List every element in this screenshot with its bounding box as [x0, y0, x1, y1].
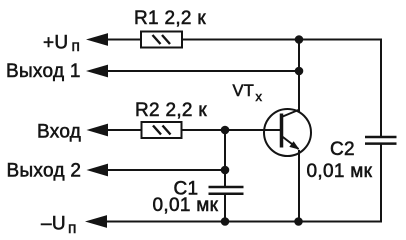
svg-text:–U: –U — [41, 214, 66, 235]
svg-text:п: п — [72, 38, 81, 55]
terminal arrow Vyhod 2 — [87, 164, 109, 177]
wire: R1 to top-right corner — [182, 39, 382, 41]
svg-text:x: x — [256, 89, 263, 104]
wire: Vyhod 1 line — [106, 70, 299, 72]
wire: C1 to bottom rail — [224, 194, 226, 222]
junction dot Vyhod 1 — [295, 67, 304, 76]
junction dot Vyhod 2 — [221, 166, 230, 175]
wire: right rail upper — [380, 39, 382, 138]
capacitor C2 — [365, 137, 397, 144]
junction dot top rail — [295, 35, 304, 44]
wire: Vyhod 2 line — [107, 169, 225, 171]
junction dot C1 bottom — [221, 217, 230, 226]
wire: R2 to transistor base — [182, 129, 281, 131]
terminal arrow -Up — [85, 215, 107, 228]
junction dot emitter bottom — [294, 217, 303, 226]
svg-text:0,01 мк: 0,01 мк — [307, 161, 373, 182]
wire: collector vertical — [298, 40, 300, 113]
svg-text:Выход 1: Выход 1 — [6, 61, 81, 82]
wire: emitter to bottom rail — [298, 150, 300, 222]
wire: bottom rail — [106, 221, 382, 223]
capacitor C1 — [209, 187, 244, 194]
wire: base node down to C1 — [224, 130, 226, 187]
svg-text:Вход: Вход — [37, 122, 81, 143]
svg-text:+U: +U — [43, 33, 68, 54]
svg-text:0,01 мк: 0,01 мк — [153, 195, 219, 216]
terminal arrow Vhod — [87, 124, 109, 137]
svg-text:п: п — [68, 220, 77, 237]
svg-text:R2 2,2 к: R2 2,2 к — [135, 100, 207, 121]
wire: right rail lower — [380, 144, 382, 222]
wire: +Up rail arrow to R1 — [106, 39, 141, 41]
transistor VTx — [264, 109, 311, 156]
terminal arrow Vyhod 1 — [86, 65, 108, 78]
resistor R1 — [141, 32, 182, 48]
svg-text:R1 2,2 к: R1 2,2 к — [134, 8, 206, 29]
junction dot base/C1 node — [221, 126, 230, 135]
terminal arrow +Up — [86, 33, 108, 46]
svg-text:Выход 2: Выход 2 — [7, 161, 82, 182]
svg-text:C2: C2 — [330, 139, 355, 160]
svg-text:VT: VT — [233, 82, 255, 100]
wire: Vhod arrow to R2 — [106, 129, 142, 131]
resistor R2 — [142, 122, 182, 138]
